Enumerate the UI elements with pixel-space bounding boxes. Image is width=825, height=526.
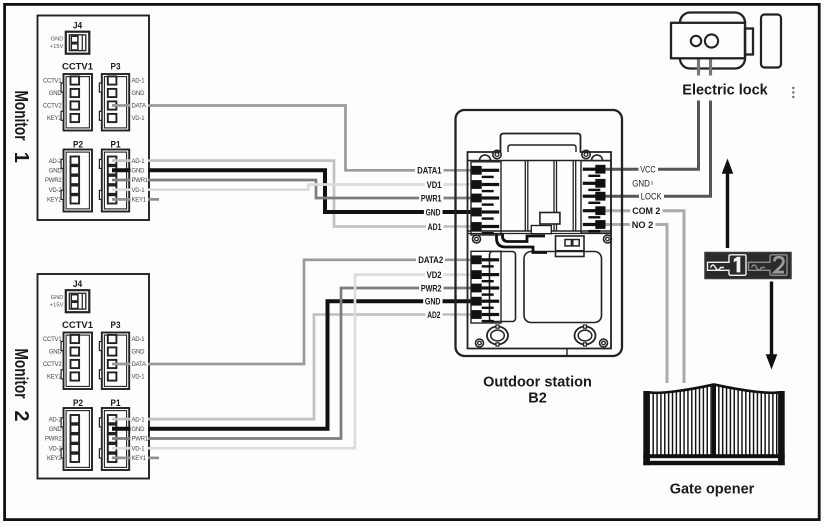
svg-text:DATA2: DATA2 (418, 255, 443, 266)
svg-text:GND: GND (51, 37, 64, 43)
svg-text:P3: P3 (111, 62, 121, 73)
svg-text:CCTV2: CCTV2 (43, 104, 63, 110)
svg-text:CCTV1: CCTV1 (43, 79, 63, 85)
svg-text:2: 2 (10, 410, 32, 421)
svg-text:GND: GND (132, 169, 146, 175)
svg-text:+15V: +15V (50, 44, 64, 50)
svg-text:B2: B2 (528, 391, 547, 407)
svg-text:AD-2: AD-2 (49, 159, 63, 165)
svg-text:COM 2: COM 2 (632, 206, 660, 217)
svg-text:KEY2: KEY2 (47, 116, 62, 122)
svg-text:J4: J4 (73, 21, 83, 32)
svg-text:Monitor: Monitor (11, 91, 31, 141)
svg-text:LOCK: LOCK (641, 192, 662, 203)
svg-text:Electric lock: Electric lock (682, 83, 768, 99)
svg-text:VD-2: VD-2 (49, 188, 63, 194)
svg-text:1: 1 (10, 152, 32, 163)
svg-text:VCC: VCC (640, 165, 656, 176)
svg-text:GND: GND (49, 169, 63, 175)
svg-text:GND: GND (426, 207, 441, 218)
svg-text:VD1: VD1 (427, 180, 442, 191)
svg-text:GND: GND (49, 91, 63, 97)
svg-text:NO 2: NO 2 (632, 220, 653, 231)
svg-text:PWR2: PWR2 (45, 178, 62, 184)
svg-text:AD-1: AD-1 (132, 79, 146, 85)
svg-text:AD1: AD1 (428, 222, 442, 233)
svg-text:DATA: DATA (132, 104, 147, 110)
svg-text:GND: GND (132, 91, 146, 97)
svg-text:Monitor: Monitor (11, 349, 31, 399)
svg-text:Outdoor station: Outdoor station (483, 375, 592, 391)
svg-text:KEY2: KEY2 (47, 198, 62, 204)
svg-text:AD2: AD2 (427, 310, 440, 321)
svg-text:KEY1: KEY1 (132, 198, 147, 204)
svg-text:CCTV1: CCTV1 (62, 62, 94, 73)
svg-text:PWR2: PWR2 (421, 283, 442, 294)
svg-text:DATA1: DATA1 (417, 166, 442, 177)
svg-text:GND: GND (425, 297, 441, 308)
svg-text:VD-1: VD-1 (132, 116, 146, 122)
svg-text:AD-1: AD-1 (132, 159, 146, 165)
svg-text:VD2: VD2 (427, 270, 442, 281)
svg-text:PWR1: PWR1 (421, 193, 442, 204)
svg-text:Gate opener: Gate opener (670, 482, 755, 498)
svg-text:GND: GND (632, 179, 650, 190)
svg-text:PWR1: PWR1 (132, 178, 149, 184)
svg-text:VD-1: VD-1 (132, 188, 146, 194)
